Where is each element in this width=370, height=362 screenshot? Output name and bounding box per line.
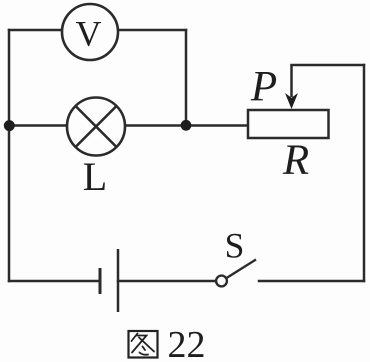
wire slider branch top (292, 64, 365, 67)
switch S (216, 226, 256, 287)
wire right rail vertical (363, 65, 366, 281)
wire battery to switch (118, 280, 216, 283)
node A (left junction dot) (4, 120, 15, 131)
slider P arrow (250, 64, 298, 111)
wire voltmeter drop to node B (185, 30, 188, 125)
wire lamp row right to rheostat (124, 124, 248, 127)
battery (100, 249, 118, 312)
wire bottom right horizontal (259, 280, 364, 283)
svg-text:V: V (76, 13, 102, 53)
wire top-right horizontal (118, 29, 186, 32)
svg-text:R: R (282, 137, 309, 184)
lamp L (67, 98, 125, 200)
svg-text:P: P (250, 64, 277, 111)
svg-text:22: 22 (168, 324, 206, 362)
node B (right junction dot) (181, 120, 192, 131)
caption: hand-drawn 图 glyph (129, 331, 158, 358)
wire bottom left to battery (9, 280, 100, 283)
svg-text:L: L (83, 154, 107, 199)
rheostat R (248, 110, 329, 184)
svg-text:S: S (225, 226, 245, 266)
wire lamp row left (9, 124, 68, 127)
wire top-left horizontal (9, 29, 62, 32)
wire left rail vertical (8, 30, 11, 281)
voltmeter V (62, 4, 118, 60)
